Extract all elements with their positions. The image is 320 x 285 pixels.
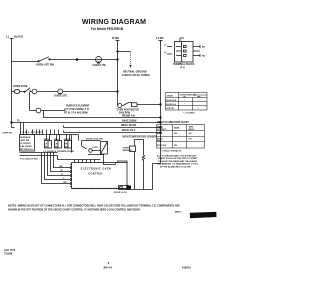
svg-text:CHECK LOCAL CODES: CHECK LOCAL CODES [122,74,150,77]
svg-text:* = CLOSED: * = CLOSED [183,113,195,115]
footer center [103,261,112,270]
svg-text:LR: LR [55,144,58,146]
svg-text:CONTROL: CONTROL [88,173,103,176]
footer right [182,266,191,270]
svg-text:UNIT SW: UNIT SW [20,140,30,142]
bank bottom labels [44,151,74,153]
table 1 [166,93,208,111]
svg-text:RD: RD [202,56,206,58]
fuse component [15,90,20,94]
svg-text:MODE: MODE [167,96,173,98]
svg-text:RR 2100W: RR 2100W [64,151,74,153]
L2 rail label [156,36,164,40]
svg-text:LOCK: LOCK [92,147,98,149]
bottom note line1 [8,205,182,214]
mech link [29,92,31,110]
svg-text:P1 L1 BLK N WH: P1 L1 BLK N WH [20,159,38,161]
svg-text:SHOWN IN THE OFF POSITION OF: SHOWN IN THE OFF POSITION OF THE ABOVE C… [8,209,140,212]
junction dots on rails [117,59,119,61]
L2 rail [159,40,163,164]
bank box C [55,141,62,149]
svg-text:* 2 HOLD CONTACTS: * 2 HOLD CONTACTS [161,150,182,153]
title [82,19,146,31]
svg-text:SW RF: SW RF [44,139,51,141]
oven vent row [118,103,161,106]
svg-text:(P-1): (P-1) [180,67,185,69]
sensor wires [135,140,144,190]
svg-text:BK: BK [60,166,64,168]
svg-text:WIRING DIAGRAM: WIRING DIAGRAM [82,19,146,26]
wire row3 [30,110,66,112]
svg-text:RR: RR [65,144,69,146]
bank bottom buses [20,152,58,154]
L drop row3 [44,111,161,118]
svg-text:OVEN LIGHT SW: OVEN LIGHT SW [180,95,197,97]
svg-text:PROBE A-B: PROBE A-B [122,115,135,118]
bank box B [45,141,52,149]
svg-text:ELECTRONIC OVEN: ELECTRONIC OVEN [81,168,111,171]
control bottom hatch [72,188,127,190]
svg-text:L2 RD: L2 RD [156,36,164,40]
svg-text:SENSOR: SENSOR [123,150,133,152]
svg-text:CONTACT: CONTACT [157,128,167,131]
bank box D [65,141,72,149]
bank top pin digits [20,131,41,134]
junction node [76,59,78,61]
bank to control elbows [42,153,72,184]
svg-text:W: W [61,170,63,172]
svg-text:SW RR: SW RR [64,139,71,141]
svg-text:TERMINAL BLOCK: TERMINAL BLOCK [173,63,195,66]
surface element note block [64,105,90,115]
svg-text:616212: 616212 [182,266,191,270]
svg-text:OVEN TEMPERATURE SENSOR: OVEN TEMPERATURE SENSOR [122,136,157,139]
svg-text:CALIBRATING 1 IS REQUIRED BY C: CALIBRATING 1 IS REQUIRED BY CYCLE [157,163,199,166]
svg-text:LITE SW: LITE SW [166,108,174,110]
svg-text:SW LR: SW LR [54,139,61,141]
svg-text:DOOR LOCK SW: DOOR LOCK SW [86,139,103,141]
bank box dividers [48,135,72,153]
svg-text:DOOR OPN: DOOR OPN [166,100,177,102]
electronic oven control box [72,163,128,189]
svg-text:TO AVOID THE BAKE AND THE ALAR: TO AVOID THE BAKE AND THE ALARM [158,160,197,163]
svg-text:BRN 1: BRN 1 [175,212,182,214]
L1 rail label [6,35,23,39]
wire row1 [12,60,118,62]
clock motor circle [32,89,37,94]
svg-text:SURFACE: SURFACE [20,136,31,139]
svg-text:73155B: 73155B [4,252,13,255]
control top bus [58,156,101,160]
svg-text:For Model FES355CB: For Model FES355CB [91,27,124,31]
door lock motor box [119,186,129,190]
svg-text:BR: BR [64,182,68,184]
svg-text:N WH: N WH [112,36,119,40]
svg-text:RR: RR [55,147,59,149]
svg-text:BLACK: BLACK [14,35,23,39]
lamp oven lite 2 [58,89,63,94]
svg-text:INF SW P2-6: INF SW P2-6 [20,149,34,151]
svg-text:LT FRONT: LT FRONT [20,143,31,145]
door lock switch pocket [79,135,101,147]
svg-text:OVEN LITE: OVEN LITE [93,64,107,67]
bus wires mid [12,122,161,124]
svg-text:3000 RPM: 3000 RPM [119,112,130,114]
svg-text:MOLD SW: MOLD SW [157,145,166,147]
motor circle row3 [36,108,41,113]
svg-text:PWR: PWR [157,141,162,143]
svg-text:A LT TO RELAYS AND CYCLE THE U: A LT TO RELAYS AND CYCLE THE UNIT [157,154,197,157]
svg-text:DOOR CLS: DOOR CLS [166,104,177,106]
door switch [24,88,30,93]
switch bank top bus [20,134,79,136]
switch oven lite sw [38,57,49,62]
terminal block (top right) [175,42,194,63]
redaction blob [190,212,217,218]
svg-text:CLAMP PULLS ON THE UNIT TO STA: CLAMP PULLS ON THE UNIT TO START [158,157,198,160]
svg-text:NOTES: WIRING IN OR OUT OF CON: NOTES: WIRING IN OR OUT OF CONNECTORS AL… [8,205,180,208]
oven fuse label [13,85,28,88]
svg-text:BROIL 3410W: BROIL 3410W [121,124,137,127]
wire row2 [12,90,118,92]
svg-text:8 IN 2100W: 8 IN 2100W [20,146,32,148]
N rail label [112,36,119,40]
bank stubs [21,123,59,135]
svg-text:DOOR LOCK: DOOR LOCK [114,192,127,194]
svg-text:BR: BR [65,147,69,149]
sensor box [130,146,136,152]
svg-text:OVEN VENT MOTOR: OVEN VENT MOTOR [117,110,140,112]
svg-text:J09 4-9: J09 4-9 [103,266,112,270]
neutral ground branch [118,51,131,53]
svg-text:AT THE ALARM RE-CYCLE SW: AT THE ALARM RE-CYCLE SW [160,166,191,169]
right paragraph [157,154,199,168]
N rail [116,40,120,106]
svg-text:RT 6L LP 6 IN-1250W: RT 6L LP 6 IN-1250W [64,112,88,115]
calibration chart heading [157,121,189,124]
svg-text:BAKE 2585W: BAKE 2585W [122,119,137,122]
svg-text:BAKE: BAKE [174,127,180,130]
svg-text:MOLD CALIBRATION CHART: MOLD CALIBRATION CHART [157,121,189,124]
svg-text:BAKE: BAKE [157,132,163,135]
svg-text:1 2 3 4 5 6 7 8 9 10: 1 2 3 4 5 6 7 8 9 10 11 12 [20,131,41,134]
blob on motor [126,186,131,190]
control left stub labels [60,166,68,184]
svg-text:BROIL: BROIL [189,129,196,131]
footer left [4,249,16,255]
oven temperature sensor heading [122,136,157,139]
svg-text:SURF SW: SURF SW [3,133,12,135]
svg-text:OVEN LITE SW: OVEN LITE SW [36,64,55,67]
svg-text:OVEN FUSE: OVEN FUSE [13,85,28,88]
bank left box [20,135,35,152]
L1 rail [10,38,15,128]
control left edge pins [70,165,72,187]
right drop wire [131,164,161,190]
table 2 [157,125,205,149]
lamp oven lite [96,57,102,63]
svg-text:OVEN LITE: OVEN LITE [54,95,68,98]
svg-text:BK: BK [202,47,206,49]
plug connector [101,142,108,155]
svg-text:MOLD 120 V: MOLD 120 V [122,130,136,132]
